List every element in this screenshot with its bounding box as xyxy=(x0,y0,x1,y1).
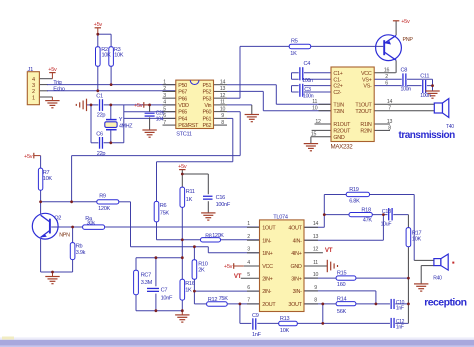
svg-text:10nF: 10nF xyxy=(161,295,173,301)
svg-text:120K: 120K xyxy=(98,206,110,212)
svg-text:4IN+: 4IN+ xyxy=(291,251,301,257)
svg-text:RC7: RC7 xyxy=(141,272,151,278)
svg-text:120K: 120K xyxy=(212,233,224,239)
svg-text:C1-: C1- xyxy=(333,77,341,83)
svg-text:13: 13 xyxy=(387,119,393,125)
svg-text:11: 11 xyxy=(312,99,317,105)
svg-text:100n: 100n xyxy=(303,94,314,100)
svg-text:1nF: 1nF xyxy=(252,332,262,338)
svg-text:10K: 10K xyxy=(102,53,112,59)
svg-text:reception: reception xyxy=(424,297,466,309)
svg-text:C11: C11 xyxy=(420,74,429,80)
svg-text:C16: C16 xyxy=(216,195,226,201)
svg-text:9: 9 xyxy=(221,113,224,119)
svg-text:MAX232: MAX232 xyxy=(331,143,354,150)
svg-text:R12: R12 xyxy=(208,297,218,303)
svg-text:Trig: Trig xyxy=(53,80,61,86)
svg-text:C18: C18 xyxy=(382,209,391,215)
svg-text:47K: 47K xyxy=(363,218,373,224)
svg-text:30k: 30k xyxy=(87,221,96,227)
svg-text:+5v: +5v xyxy=(48,67,57,73)
svg-text:3: 3 xyxy=(163,93,166,99)
svg-text:R2IN: R2IN xyxy=(360,129,371,135)
svg-text:VT: VT xyxy=(325,247,333,254)
svg-text:1IN+: 1IN+ xyxy=(262,251,272,257)
svg-text:15: 15 xyxy=(311,132,317,138)
svg-text:R8: R8 xyxy=(205,233,212,239)
svg-text:P66: P66 xyxy=(178,96,187,102)
svg-text:5: 5 xyxy=(163,106,166,112)
svg-text:14: 14 xyxy=(313,221,319,227)
svg-text:R13: R13 xyxy=(280,316,290,322)
svg-text:T40: T40 xyxy=(446,124,454,130)
svg-text:C7: C7 xyxy=(161,288,168,294)
svg-text:75K: 75K xyxy=(160,210,170,216)
svg-text:2IN-: 2IN- xyxy=(262,289,271,295)
svg-text:Vin: Vin xyxy=(204,103,211,109)
svg-text:R18: R18 xyxy=(361,208,371,214)
svg-text:R1OUT: R1OUT xyxy=(333,122,351,128)
svg-text:2OUT: 2OUT xyxy=(262,302,276,308)
svg-text:10: 10 xyxy=(312,106,318,112)
svg-text:100n: 100n xyxy=(420,93,431,99)
svg-text:Y: Y xyxy=(119,117,123,123)
svg-text:9: 9 xyxy=(314,285,317,291)
svg-text:+5v: +5v xyxy=(401,19,410,25)
svg-text:VS+: VS+ xyxy=(362,77,372,83)
svg-text:10K: 10K xyxy=(280,328,290,334)
svg-text:T1IN: T1IN xyxy=(333,102,344,108)
svg-text:1nF: 1nF xyxy=(396,306,404,312)
svg-text:6: 6 xyxy=(247,285,250,291)
svg-text:22p: 22p xyxy=(97,112,106,118)
svg-text:R2OUT: R2OUT xyxy=(333,129,351,135)
svg-text:C3: C3 xyxy=(304,87,311,93)
svg-text:VCC: VCC xyxy=(361,71,372,77)
svg-text:C4: C4 xyxy=(304,61,311,67)
svg-text:P53: P53 xyxy=(202,96,211,102)
svg-text:4: 4 xyxy=(247,260,250,266)
svg-text:3.3M: 3.3M xyxy=(141,280,153,286)
svg-text:+5v: +5v xyxy=(94,22,103,28)
svg-text:T2IN: T2IN xyxy=(333,109,344,115)
svg-text:P65: P65 xyxy=(178,110,187,116)
svg-text:GND: GND xyxy=(333,135,344,141)
svg-text:3: 3 xyxy=(247,247,250,253)
svg-text:C9: C9 xyxy=(252,313,259,319)
svg-text:T1OUT: T1OUT xyxy=(355,102,372,108)
svg-text:11: 11 xyxy=(220,100,225,106)
svg-text:R17: R17 xyxy=(412,230,422,236)
svg-text:2: 2 xyxy=(163,86,166,92)
svg-text:P50: P50 xyxy=(178,83,187,89)
svg-text:R16: R16 xyxy=(185,281,195,287)
svg-text:1K: 1K xyxy=(290,51,297,57)
svg-text:P51: P51 xyxy=(202,83,211,89)
svg-text:7: 7 xyxy=(163,120,166,126)
svg-text:C1+: C1+ xyxy=(333,71,342,77)
svg-text:100n: 100n xyxy=(401,87,412,93)
svg-text:Echo: Echo xyxy=(53,86,65,92)
svg-text:4: 4 xyxy=(163,100,166,106)
svg-text:VS-: VS- xyxy=(363,84,372,90)
svg-text:1IN-: 1IN- xyxy=(262,238,271,244)
svg-text:2: 2 xyxy=(247,234,250,240)
svg-text:R9: R9 xyxy=(99,194,106,200)
svg-text:R14: R14 xyxy=(337,297,347,303)
svg-text:12: 12 xyxy=(315,119,321,125)
svg-text:P52: P52 xyxy=(202,90,211,96)
svg-text:+5v: +5v xyxy=(134,103,143,109)
svg-text:22p: 22p xyxy=(97,151,106,157)
svg-text:75K: 75K xyxy=(219,296,229,302)
svg-text:NPN: NPN xyxy=(59,233,70,239)
svg-text:10K: 10K xyxy=(43,176,53,182)
svg-text:R1IN: R1IN xyxy=(360,122,371,128)
svg-text:13: 13 xyxy=(313,234,319,240)
svg-text:Rb: Rb xyxy=(76,244,83,250)
svg-text:1: 1 xyxy=(247,221,250,227)
svg-text:+5v: +5v xyxy=(178,164,187,170)
svg-text:GND: GND xyxy=(291,264,302,270)
svg-text:8: 8 xyxy=(314,298,317,304)
svg-text:3: 3 xyxy=(32,83,35,89)
svg-text:1K: 1K xyxy=(186,197,193,203)
svg-text:16: 16 xyxy=(384,68,390,74)
svg-text:1K: 1K xyxy=(185,287,192,293)
svg-text:P62: P62 xyxy=(202,123,211,129)
svg-text:10uF: 10uF xyxy=(381,222,392,228)
svg-text:10K: 10K xyxy=(114,53,124,59)
svg-text:R6: R6 xyxy=(160,203,167,209)
svg-text:J1: J1 xyxy=(28,67,34,73)
svg-text:T2OUT: T2OUT xyxy=(355,109,372,115)
svg-text:100n: 100n xyxy=(302,78,313,84)
svg-text:100nF: 100nF xyxy=(216,202,231,208)
svg-text:14: 14 xyxy=(387,99,393,105)
svg-text:10K: 10K xyxy=(412,237,422,243)
svg-text:7: 7 xyxy=(247,298,250,304)
svg-text:transmission: transmission xyxy=(399,130,456,141)
svg-text:STC11: STC11 xyxy=(176,131,192,137)
svg-text:P64: P64 xyxy=(178,116,187,122)
svg-text:3IN-: 3IN- xyxy=(293,289,302,295)
svg-text:P67: P67 xyxy=(178,90,187,96)
svg-text:11: 11 xyxy=(313,260,318,266)
svg-text:PNP: PNP xyxy=(403,37,414,43)
svg-text:R40: R40 xyxy=(433,276,442,282)
svg-text:4MHZ: 4MHZ xyxy=(119,123,133,129)
svg-text:+5v: +5v xyxy=(224,264,233,270)
svg-text:C1: C1 xyxy=(96,94,103,100)
svg-text:8: 8 xyxy=(388,125,391,131)
svg-text:56K: 56K xyxy=(337,309,347,315)
svg-text:R15: R15 xyxy=(337,270,347,276)
svg-text:4OUT: 4OUT xyxy=(288,225,302,231)
svg-text:P60: P60 xyxy=(202,110,211,116)
svg-text:3OUT: 3OUT xyxy=(288,302,302,308)
svg-text:10: 10 xyxy=(220,106,226,112)
svg-text:2: 2 xyxy=(32,89,35,95)
svg-text:VCC: VCC xyxy=(262,264,273,270)
svg-text:1: 1 xyxy=(163,79,166,85)
svg-text:VDD: VDD xyxy=(178,103,189,109)
svg-text:1OUT: 1OUT xyxy=(262,225,276,231)
svg-text:6.8K: 6.8K xyxy=(349,199,360,205)
svg-text:2K: 2K xyxy=(198,268,205,274)
svg-text:10: 10 xyxy=(313,272,319,278)
svg-text:8: 8 xyxy=(221,120,224,126)
svg-text:2IN+: 2IN+ xyxy=(262,276,272,282)
svg-text:Q2: Q2 xyxy=(54,215,61,221)
svg-text:R5: R5 xyxy=(291,39,298,45)
svg-text:VT: VT xyxy=(234,273,242,280)
svg-text:TL074: TL074 xyxy=(273,214,288,220)
svg-text:6: 6 xyxy=(163,113,166,119)
svg-text:C8: C8 xyxy=(401,67,408,73)
svg-text:5: 5 xyxy=(247,272,250,278)
svg-text:2: 2 xyxy=(385,74,388,80)
svg-text:R19: R19 xyxy=(349,187,359,193)
svg-text:C2+: C2+ xyxy=(333,84,342,90)
svg-text:7: 7 xyxy=(388,106,391,112)
svg-text:14: 14 xyxy=(220,79,226,85)
svg-text:12: 12 xyxy=(313,247,319,253)
svg-text:160: 160 xyxy=(337,282,346,288)
svg-text:C2-: C2- xyxy=(333,90,341,96)
svg-text:3.9k: 3.9k xyxy=(76,250,86,256)
svg-text:13: 13 xyxy=(220,86,226,92)
svg-text:1nF: 1nF xyxy=(396,325,404,331)
svg-text:1: 1 xyxy=(32,95,35,101)
svg-text:4IN-: 4IN- xyxy=(293,238,302,244)
svg-text:12: 12 xyxy=(220,93,226,99)
svg-text:6: 6 xyxy=(385,80,388,86)
svg-text:C6: C6 xyxy=(96,132,103,138)
svg-text:R11: R11 xyxy=(186,189,195,195)
svg-text:3IN+: 3IN+ xyxy=(291,276,301,282)
svg-text:P63/RST: P63/RST xyxy=(178,123,199,129)
svg-text:P61: P61 xyxy=(202,116,211,122)
svg-text:+5v: +5v xyxy=(24,154,33,160)
